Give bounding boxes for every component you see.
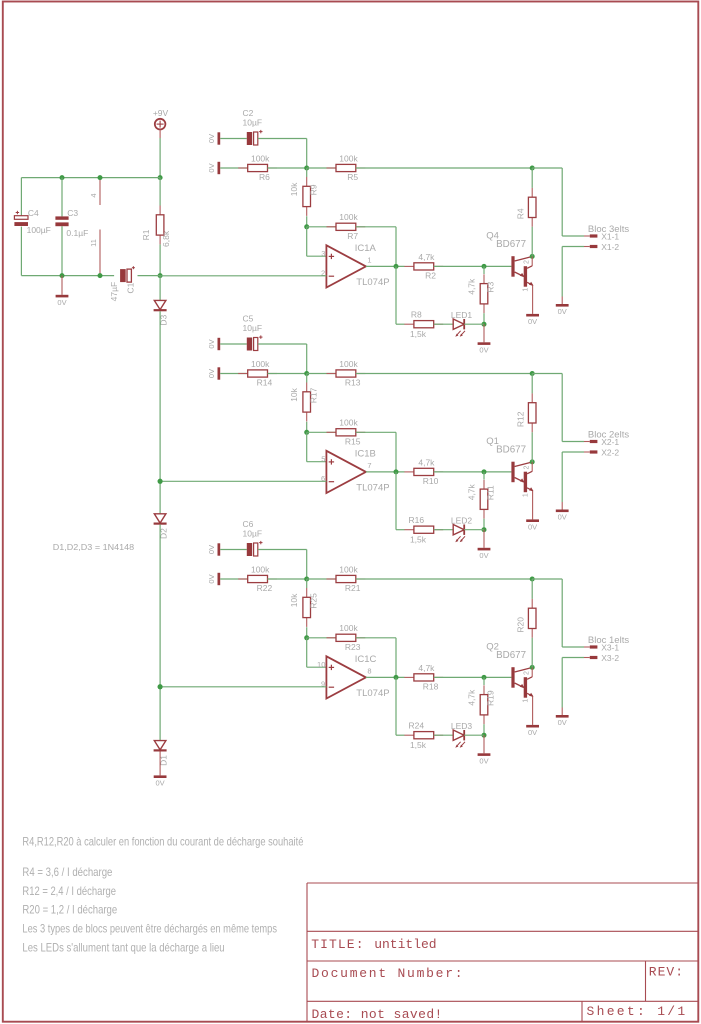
svg-text:R5: R5 — [347, 172, 358, 182]
svg-text:R19: R19 — [486, 690, 496, 706]
wire collector node to R12 — [531, 374, 533, 394]
svg-text:R21: R21 — [345, 583, 361, 593]
svg-text:0.1µF: 0.1µF — [66, 228, 88, 238]
ground 0V at C5 — [207, 338, 220, 350]
svg-text:100k: 100k — [339, 564, 358, 574]
svg-text:1,5k: 1,5k — [410, 535, 427, 545]
node collector top — [530, 166, 535, 171]
wire gnd to C6 — [220, 549, 247, 551]
wire connector gnd column — [561, 658, 563, 708]
svg-text:2: 2 — [523, 671, 530, 675]
wire R23 to output column — [356, 637, 396, 639]
svg-text:REV:: REV: — [649, 964, 684, 979]
svg-text:4,7k: 4,7k — [467, 278, 477, 295]
resistor R24 — [404, 721, 443, 750]
resistor R8 — [404, 310, 443, 339]
svg-text:R2: R2 — [425, 271, 436, 281]
node led — [482, 322, 487, 327]
wire node to R7 — [307, 226, 336, 228]
svg-text:0V: 0V — [207, 163, 216, 172]
connector pin X1-2 — [590, 242, 620, 252]
svg-text:4,7k: 4,7k — [418, 663, 435, 673]
transistor Q2 — [486, 641, 533, 702]
svg-text:0V: 0V — [558, 307, 567, 316]
wire output column down — [395, 432, 397, 472]
wire vertical resistor to fb node — [306, 216, 308, 227]
svg-text:4: 4 — [89, 193, 98, 197]
wire R20 down to collector — [531, 638, 533, 668]
svg-text:100k: 100k — [339, 418, 358, 428]
ground 0V at R22 — [207, 573, 220, 585]
node base — [482, 675, 487, 680]
svg-text:0V: 0V — [156, 779, 165, 788]
wire to + input — [307, 461, 327, 463]
IC1 power pin 4 — [89, 178, 100, 205]
wire LED3 to node — [464, 734, 484, 736]
svg-text:R3: R3 — [486, 282, 496, 293]
svg-text:IC1A: IC1A — [355, 243, 377, 254]
connector pin X1-1 — [590, 231, 620, 241]
svg-text:R20: R20 — [516, 617, 526, 633]
svg-text:R20 = 1,2 / I décharge: R20 = 1,2 / I décharge — [22, 903, 117, 917]
ground 0V at C6 — [207, 543, 220, 555]
wire to vertical resistor — [306, 168, 308, 177]
node collector — [530, 459, 535, 464]
svg-text:0V: 0V — [528, 317, 537, 326]
wire to vertical resistor — [306, 374, 308, 383]
svg-text:+9V: +9V — [153, 108, 169, 118]
svg-text:100µF: 100µF — [27, 225, 51, 235]
wire to X1-1 — [562, 235, 584, 237]
svg-text:0V: 0V — [558, 513, 567, 522]
svg-text:10µF: 10µF — [243, 529, 263, 539]
node base — [482, 469, 487, 474]
wire gnd to C2 — [220, 138, 247, 140]
wire R4 down to collector — [531, 227, 533, 257]
wire R24 to LED3 — [434, 734, 454, 736]
wire R1 top — [159, 178, 161, 206]
svg-text:Date: not saved!: Date: not saved! — [312, 1007, 443, 1022]
wire R13 to collector node — [356, 373, 532, 375]
svg-text:11: 11 — [89, 239, 98, 247]
node tap IC1B — [158, 479, 163, 484]
node input — [304, 577, 309, 582]
wire D3 to D2 — [159, 311, 161, 514]
node pin4 — [98, 175, 103, 180]
svg-text:Les 3 types de blocs peuvent ê: Les 3 types de blocs peuvent être déchar… — [22, 922, 277, 936]
wire emitter down — [532, 491, 534, 520]
wire node to R5 — [307, 167, 336, 169]
node tap IC1C — [158, 684, 163, 689]
ground 0V at connector — [556, 304, 569, 316]
resistor R2 — [404, 252, 443, 281]
resistor R23 — [327, 623, 366, 652]
svg-text:C5: C5 — [243, 314, 254, 324]
resistor R9 — [289, 177, 318, 216]
svg-text:10: 10 — [317, 660, 325, 669]
ground 0V below C3 — [56, 295, 69, 307]
svg-text:C3: C3 — [67, 208, 78, 218]
wire R18 to base node — [434, 676, 512, 678]
resistor R15 — [327, 418, 366, 447]
diode D3 — [154, 300, 169, 325]
wire - input — [160, 686, 326, 688]
svg-text:R15: R15 — [345, 437, 361, 447]
diode D2 — [154, 514, 169, 539]
svg-text:1: 1 — [367, 255, 371, 264]
resistor R4 — [516, 188, 536, 227]
svg-text:0V: 0V — [479, 346, 488, 355]
wire R16 to LED2 — [434, 529, 454, 531]
svg-text:4,7k: 4,7k — [467, 483, 477, 500]
resistor R16 — [404, 515, 443, 544]
resistor R6 — [238, 153, 277, 182]
title block box — [307, 883, 698, 1022]
node collector — [530, 665, 535, 670]
node output — [394, 264, 399, 269]
wire R19 to led node — [483, 724, 485, 735]
wire R2 to base node — [434, 265, 512, 267]
wire D2 to D1 — [159, 525, 161, 741]
svg-text:Bloc 3elts: Bloc 3elts — [588, 224, 629, 235]
resistor R14 — [238, 359, 277, 388]
LED LED3 — [451, 721, 473, 748]
svg-text:0V: 0V — [479, 551, 488, 560]
node output — [394, 469, 399, 474]
wire R11 to led node — [483, 519, 485, 530]
svg-text:1,5k: 1,5k — [410, 740, 427, 750]
wire R3 to led node — [483, 313, 485, 324]
wire C4 down — [20, 227, 22, 276]
wire collector node to R20 — [531, 579, 533, 599]
svg-text:10k: 10k — [289, 593, 299, 607]
wire collector segment — [531, 667, 533, 677]
svg-text:0V: 0V — [207, 545, 216, 554]
ground 0V below D1 — [154, 775, 167, 787]
svg-text:R1: R1 — [141, 229, 151, 240]
wire connector column down — [561, 168, 563, 236]
ground 0V at emitter — [526, 519, 539, 531]
node C3 top — [60, 175, 65, 180]
svg-text:8: 8 — [367, 666, 371, 675]
svg-text:BD677: BD677 — [496, 239, 526, 250]
wire node to R15 — [307, 431, 336, 433]
node collector top — [530, 371, 535, 376]
wire to vertical resistor — [306, 579, 308, 588]
wire X3-2 left — [584, 657, 590, 659]
resistor R5 — [327, 153, 366, 182]
svg-text:BD677: BD677 — [496, 445, 526, 456]
resistor R10 — [404, 457, 443, 486]
svg-text:R18: R18 — [423, 682, 439, 692]
svg-text:4,7k: 4,7k — [467, 689, 477, 706]
wire led node gnd stub — [483, 530, 485, 548]
node input — [304, 166, 309, 171]
svg-text:2: 2 — [523, 465, 530, 469]
transistor Q1 — [486, 436, 533, 497]
wire C1 to rail node — [138, 275, 161, 277]
wire C2 to node — [258, 138, 307, 140]
wire output — [366, 471, 405, 473]
wire gnd to R22 — [220, 578, 248, 580]
svg-text:R11: R11 — [486, 485, 496, 500]
svg-text:X2-2: X2-2 — [601, 447, 619, 457]
connector pin X3-2 — [590, 653, 620, 663]
wire R21 to collector node — [356, 578, 532, 580]
wire X1-2 left — [584, 246, 590, 248]
capacitor C5 — [243, 314, 263, 351]
resistor R3 — [467, 274, 496, 313]
node main rail — [158, 273, 163, 278]
wire top rail — [21, 177, 160, 179]
node - input tap — [158, 684, 163, 689]
wire output column down — [395, 638, 397, 678]
svg-text:R12 = 2,4 / I décharge: R12 = 2,4 / I décharge — [22, 884, 116, 898]
svg-text:LED2: LED2 — [451, 516, 473, 526]
wire led node gnd stub — [483, 735, 485, 753]
wire base node down — [483, 472, 485, 480]
resistor R25 — [289, 588, 318, 627]
svg-text:R12: R12 — [516, 411, 526, 427]
capacitor C6 — [243, 519, 263, 556]
wire D1 to ground — [159, 751, 161, 775]
node C3 bottom — [60, 273, 65, 278]
node feedback — [304, 635, 309, 640]
capacitor C2 — [243, 108, 263, 145]
wire R14 to node — [268, 373, 307, 375]
wire R10 to base node — [434, 471, 512, 473]
ground 0V at C2 — [207, 132, 220, 144]
resistor R17 — [289, 383, 318, 422]
wire cap branch down — [306, 550, 308, 580]
svg-text:2: 2 — [523, 260, 530, 264]
svg-text:0V: 0V — [558, 718, 567, 727]
ground 0V at emitter — [526, 314, 539, 326]
wire R5 to collector node — [356, 167, 532, 169]
resistor R12 — [516, 393, 536, 432]
wire node to R23 — [307, 637, 336, 639]
wire fb node down to + input — [306, 432, 308, 461]
svg-text:R22: R22 — [257, 583, 273, 593]
wire output — [366, 676, 405, 678]
svg-text:10k: 10k — [289, 182, 299, 196]
wire cap branch down — [306, 344, 308, 374]
svg-text:IC1C: IC1C — [355, 654, 377, 665]
svg-text:IC1B: IC1B — [355, 449, 376, 460]
wire fb node down to + input — [306, 227, 308, 256]
svg-text:LED3: LED3 — [451, 721, 473, 731]
svg-text:Bloc 1elts: Bloc 1elts — [588, 635, 629, 646]
svg-text:100k: 100k — [251, 564, 270, 574]
node led — [482, 527, 487, 532]
wire bottom rail left — [21, 275, 114, 277]
wire gnd stub C3 — [61, 276, 63, 295]
svg-text:C2: C2 — [243, 108, 254, 118]
wire to X3-1 — [562, 646, 584, 648]
node led — [482, 733, 487, 738]
op-amp IC1C — [317, 654, 390, 699]
wire left branch down — [20, 178, 22, 217]
svg-text:0V: 0V — [207, 369, 216, 378]
svg-text:10µF: 10µF — [243, 323, 263, 333]
wire to + input — [307, 255, 327, 257]
svg-text:6,8k: 6,8k — [161, 230, 171, 247]
svg-text:TL074P: TL074P — [356, 277, 389, 288]
svg-text:100k: 100k — [251, 153, 270, 163]
wire collector segment — [531, 256, 533, 266]
svg-text:100k: 100k — [251, 359, 270, 369]
node - input tap — [158, 479, 163, 484]
wire emitter down — [532, 285, 534, 314]
resistor R7 — [327, 212, 366, 241]
svg-text:R25: R25 — [308, 593, 318, 609]
svg-text:TL074P: TL074P — [356, 688, 389, 699]
svg-text:BD677: BD677 — [496, 650, 526, 661]
svg-text:R4: R4 — [516, 208, 526, 219]
wire R7 to output column — [356, 226, 396, 228]
resistor R22 — [238, 564, 277, 593]
svg-text:100k: 100k — [339, 212, 358, 222]
svg-text:R8: R8 — [411, 310, 422, 320]
svg-text:1: 1 — [523, 493, 530, 497]
svg-text:Bloc 2elts: Bloc 2elts — [588, 429, 629, 440]
ground 0V at R14 — [207, 367, 220, 379]
transistor Q4 — [486, 230, 533, 291]
wire R22 to node — [268, 578, 307, 580]
svg-text:0V: 0V — [207, 574, 216, 583]
op-amp IC1B — [321, 449, 390, 494]
capacitor C4 — [14, 208, 50, 235]
wire base node down — [483, 266, 485, 274]
wire base node down — [483, 677, 485, 685]
node feedback — [304, 224, 309, 229]
wire connector gnd column — [561, 452, 563, 502]
wire R15 to output column — [356, 431, 396, 433]
wire led node gnd stub — [483, 324, 485, 342]
svg-text:TITLE:: TITLE: — [311, 937, 364, 952]
node collector top — [530, 577, 535, 582]
svg-text:R4,R12,R20 à calculer en fonct: R4,R12,R20 à calculer en fonction du cou… — [22, 835, 303, 849]
wire gnd to R14 — [220, 373, 248, 375]
wire collector segment — [531, 462, 533, 472]
wire C3 up — [61, 178, 63, 217]
wire C5 to node — [258, 343, 307, 345]
wire to connector column — [532, 167, 562, 169]
wire LED2 to node — [464, 529, 484, 531]
wire fb node down to + input — [306, 638, 308, 667]
svg-text:100k: 100k — [339, 359, 358, 369]
svg-text:47µF: 47µF — [109, 282, 119, 302]
wire to X2-1 — [562, 441, 584, 443]
svg-text:1: 1 — [523, 288, 530, 292]
wire R12 down to collector — [531, 432, 533, 462]
connector pin X2-1 — [590, 437, 620, 447]
svg-text:0V: 0V — [479, 757, 488, 766]
ground 0V at connector — [556, 715, 569, 727]
svg-text:3: 3 — [321, 249, 325, 258]
svg-text:R17: R17 — [308, 387, 318, 403]
wire LED1 to node — [464, 323, 484, 325]
wire R1 bottom — [159, 244, 161, 275]
wire connector column down — [561, 374, 563, 442]
svg-text:C1: C1 — [126, 282, 136, 293]
ground 0V at R6 — [207, 162, 220, 174]
svg-text:C4: C4 — [28, 208, 39, 218]
wire connector column down — [561, 579, 563, 647]
resistor R1 — [141, 206, 171, 247]
node input — [304, 371, 309, 376]
svg-text:4,7k: 4,7k — [418, 457, 435, 467]
resistor R20 — [516, 599, 536, 638]
svg-text:R10: R10 — [423, 476, 439, 486]
resistor R18 — [404, 663, 443, 692]
supply +9V — [153, 108, 169, 129]
svg-text:R13: R13 — [345, 378, 361, 388]
resistor R21 — [327, 564, 366, 593]
resistor R11 — [467, 480, 496, 519]
svg-text:R6: R6 — [259, 172, 270, 182]
IC1 power pin 11 — [89, 230, 100, 276]
svg-text:R4 = 3,6 / I décharge: R4 = 3,6 / I décharge — [22, 865, 112, 879]
wire to connector column — [532, 578, 562, 580]
wire X2-2 left — [584, 451, 590, 453]
svg-text:0V: 0V — [57, 298, 66, 307]
ground 0V at led node — [478, 548, 491, 560]
ground 0V at led node — [478, 753, 491, 765]
svg-text:TL074P: TL074P — [356, 483, 389, 494]
svg-text:X3-2: X3-2 — [601, 653, 619, 663]
connector pin X2-2 — [590, 447, 620, 457]
svg-text:R14: R14 — [257, 378, 273, 388]
wire cap branch down — [306, 139, 308, 169]
wire +9V to rail — [159, 129, 161, 138]
wire connector gnd column — [561, 247, 563, 297]
svg-text:Sheet: 1/1: Sheet: 1/1 — [587, 1004, 688, 1019]
wire vertical resistor to fb node — [306, 627, 308, 638]
wire led row — [395, 472, 397, 530]
ground 0V at led node — [478, 342, 491, 354]
node output — [394, 675, 399, 680]
wire emitter down — [532, 696, 534, 725]
svg-text:0V: 0V — [207, 339, 216, 348]
wire led row — [395, 266, 397, 324]
LED LED2 — [451, 516, 473, 543]
svg-text:10µF: 10µF — [243, 118, 263, 128]
svg-text:untitled: untitled — [374, 937, 436, 952]
capacitor C1 — [109, 266, 136, 301]
wire to + input — [307, 666, 327, 668]
wire - input — [160, 275, 326, 277]
wire R8 to LED1 — [434, 323, 454, 325]
resistor R13 — [327, 359, 366, 388]
svg-text:5: 5 — [321, 454, 325, 463]
wire rail to D3 — [159, 276, 161, 301]
svg-text:D1,D2,D3 = 1N4148: D1,D2,D3 = 1N4148 — [53, 543, 135, 552]
wire output column down — [395, 227, 397, 267]
svg-text:0V: 0V — [528, 728, 537, 737]
wire to connector column — [532, 373, 562, 375]
svg-text:0V: 0V — [528, 523, 537, 532]
wire gnd to C5 — [220, 343, 247, 345]
svg-text:4,7k: 4,7k — [418, 252, 435, 262]
svg-text:100k: 100k — [339, 623, 358, 633]
svg-text:R23: R23 — [345, 642, 361, 652]
svg-text:Document Number:: Document Number: — [312, 966, 465, 981]
wire C3 down — [61, 226, 63, 275]
svg-text:0V: 0V — [207, 134, 216, 143]
svg-text:C6: C6 — [243, 519, 254, 529]
wire output — [366, 265, 405, 267]
